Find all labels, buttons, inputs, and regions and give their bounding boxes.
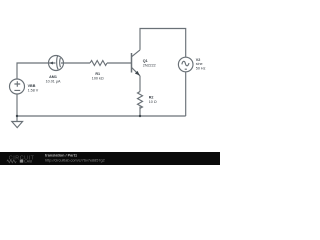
svg-text:LAB: LAB xyxy=(24,160,32,164)
svg-text:100 kΩ: 100 kΩ xyxy=(92,76,104,80)
svg-text:1.58 V: 1.58 V xyxy=(28,88,39,92)
svg-text:http://circuitlab.com/c/76v7e8: http://circuitlab.com/c/76v7e8857g2 xyxy=(45,158,105,162)
svg-text:10.01 µA: 10.01 µA xyxy=(46,80,61,84)
svg-text:AM1: AM1 xyxy=(49,75,57,79)
svg-text:translation / Part1: translation / Part1 xyxy=(45,154,77,158)
svg-text:50 Hz: 50 Hz xyxy=(196,66,206,70)
svg-text:2N2222: 2N2222 xyxy=(143,63,156,67)
svg-text:10 Ω: 10 Ω xyxy=(149,100,157,104)
